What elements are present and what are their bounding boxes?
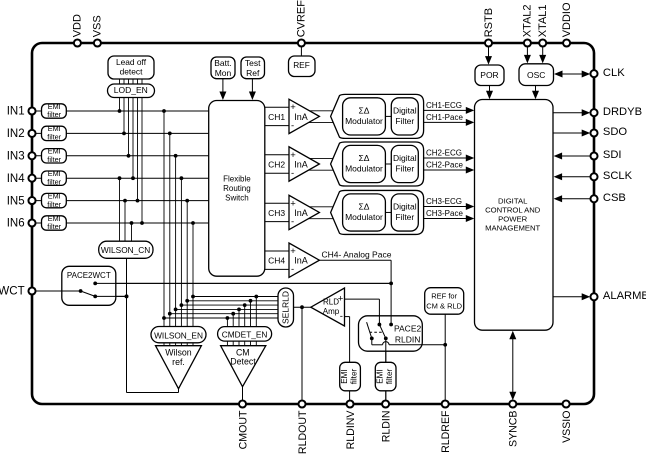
- svg-text:PACE2WCT: PACE2WCT: [67, 271, 111, 280]
- svg-text:CMOUT: CMOUT: [237, 410, 249, 449]
- svg-text:MANAGEMENT: MANAGEMENT: [485, 223, 540, 232]
- svg-text:+: +: [290, 102, 296, 113]
- svg-text:SELRLD: SELRLD: [281, 291, 291, 324]
- svg-text:RLDIN: RLDIN: [395, 335, 421, 345]
- svg-text:SDI: SDI: [603, 149, 622, 161]
- svg-text:filter: filter: [47, 200, 61, 209]
- svg-text:Detect: Detect: [230, 356, 256, 366]
- svg-text:CH3: CH3: [268, 208, 285, 218]
- svg-text:CONTROL AND: CONTROL AND: [485, 206, 541, 215]
- svg-text:REF: REF: [293, 60, 310, 70]
- svg-text:RLDINV: RLDINV: [345, 410, 357, 450]
- svg-text:PACE2: PACE2: [394, 324, 422, 334]
- svg-text:Mon: Mon: [215, 68, 232, 78]
- svg-text:POWER: POWER: [498, 215, 527, 224]
- svg-text:ΣΔ: ΣΔ: [359, 201, 370, 211]
- svg-text:ΣΔ: ΣΔ: [359, 105, 370, 115]
- svg-text:Lead off: Lead off: [116, 57, 147, 67]
- svg-text:Ref: Ref: [246, 68, 260, 78]
- svg-text:ΣΔ: ΣΔ: [359, 153, 370, 163]
- svg-text:Switch: Switch: [225, 194, 249, 203]
- svg-text:Modulator: Modulator: [345, 164, 383, 174]
- svg-text:OSC: OSC: [527, 70, 545, 80]
- svg-text:CH1: CH1: [268, 112, 285, 122]
- svg-text:+: +: [290, 150, 296, 161]
- svg-text:filter: filter: [47, 222, 61, 231]
- svg-text:filter: filter: [47, 155, 61, 164]
- svg-text:CVREF: CVREF: [296, 0, 308, 37]
- svg-text:Batt.: Batt.: [214, 58, 231, 68]
- svg-text:IN1: IN1: [7, 106, 25, 118]
- svg-text:XTAL2: XTAL2: [522, 4, 534, 37]
- svg-text:Modulator: Modulator: [345, 116, 383, 126]
- svg-text:Filter: Filter: [395, 212, 414, 222]
- svg-text:InA: InA: [294, 208, 308, 218]
- svg-text:VDD: VDD: [72, 14, 84, 37]
- svg-text:Digital: Digital: [393, 153, 417, 163]
- svg-text:CH2-Pace: CH2-Pace: [426, 161, 463, 170]
- svg-text:-: -: [291, 264, 294, 275]
- svg-text:CH4- Analog Pace: CH4- Analog Pace: [322, 249, 392, 259]
- svg-text:WILSON_CN: WILSON_CN: [101, 245, 150, 255]
- svg-text:POR: POR: [480, 70, 498, 80]
- svg-text:IN3: IN3: [7, 151, 25, 163]
- svg-text:CH1-Pace: CH1-Pace: [426, 113, 463, 122]
- svg-text:LOD_EN: LOD_EN: [114, 85, 148, 95]
- svg-text:CH1-ECG: CH1-ECG: [426, 101, 462, 110]
- svg-text:-: -: [291, 168, 294, 179]
- svg-text:+: +: [290, 198, 296, 209]
- svg-text:RLDREF: RLDREF: [440, 410, 452, 453]
- svg-text:Filter: Filter: [395, 116, 414, 126]
- svg-text:VDDIO: VDDIO: [561, 2, 573, 37]
- svg-text:ALARMB: ALARMB: [603, 290, 646, 302]
- svg-text:VSSIO: VSSIO: [561, 411, 573, 443]
- svg-text:REF for: REF for: [431, 292, 457, 301]
- svg-text:filter: filter: [385, 368, 394, 384]
- svg-text:DIGITAL: DIGITAL: [498, 197, 528, 206]
- svg-text:XTAL1: XTAL1: [537, 4, 549, 37]
- svg-text:filter: filter: [47, 177, 61, 186]
- svg-text:InA: InA: [294, 160, 308, 170]
- svg-text:-: -: [291, 120, 294, 131]
- svg-text:CSB: CSB: [603, 192, 626, 204]
- svg-text:Test: Test: [245, 58, 261, 68]
- svg-text:SDO: SDO: [603, 126, 628, 138]
- svg-text:Modulator: Modulator: [345, 212, 383, 222]
- svg-text:Digital: Digital: [393, 201, 417, 211]
- svg-text:CH2: CH2: [268, 160, 285, 170]
- svg-text:filter: filter: [47, 110, 61, 119]
- svg-text:RLDOUT: RLDOUT: [297, 410, 309, 454]
- svg-text:RLDIN: RLDIN: [381, 411, 393, 443]
- svg-text:InA: InA: [294, 256, 308, 266]
- svg-text:WILSON_EN: WILSON_EN: [154, 330, 203, 340]
- svg-text:CM & RLD: CM & RLD: [426, 302, 462, 311]
- svg-text:RSTB: RSTB: [483, 8, 495, 37]
- svg-text:filter: filter: [350, 368, 359, 384]
- svg-text:filter: filter: [47, 133, 61, 142]
- svg-text:EMI: EMI: [375, 369, 384, 384]
- svg-text:-: -: [291, 216, 294, 227]
- svg-text:CLK: CLK: [603, 67, 625, 79]
- svg-text:SCLK: SCLK: [603, 170, 633, 182]
- svg-text:CH3-ECG: CH3-ECG: [426, 197, 462, 206]
- svg-text:-: -: [340, 311, 343, 322]
- svg-text:WCT: WCT: [0, 286, 25, 298]
- svg-text:detect: detect: [120, 66, 143, 76]
- svg-text:Flexible: Flexible: [223, 175, 251, 184]
- svg-text:VSS: VSS: [92, 15, 104, 37]
- svg-text:Amp: Amp: [323, 307, 340, 316]
- svg-text:IN5: IN5: [7, 195, 25, 207]
- svg-text:IN2: IN2: [7, 128, 25, 140]
- svg-text:ref.: ref.: [172, 357, 185, 367]
- svg-text:IN6: IN6: [7, 218, 25, 230]
- svg-text:+: +: [338, 293, 344, 304]
- svg-text:DRDYB: DRDYB: [603, 106, 642, 118]
- svg-text:+: +: [290, 246, 296, 257]
- svg-text:Routing: Routing: [223, 184, 251, 193]
- svg-text:InA: InA: [294, 112, 308, 122]
- svg-text:Digital: Digital: [393, 105, 417, 115]
- svg-text:CH2-ECG: CH2-ECG: [426, 149, 462, 158]
- svg-text:EMI: EMI: [340, 369, 349, 384]
- svg-text:Filter: Filter: [395, 164, 414, 174]
- svg-text:CH4: CH4: [268, 256, 285, 266]
- svg-text:CH3-Pace: CH3-Pace: [426, 209, 463, 218]
- svg-text:SYNCB: SYNCB: [508, 411, 520, 448]
- svg-text:CMDET_EN: CMDET_EN: [222, 330, 268, 340]
- svg-text:IN4: IN4: [7, 173, 26, 185]
